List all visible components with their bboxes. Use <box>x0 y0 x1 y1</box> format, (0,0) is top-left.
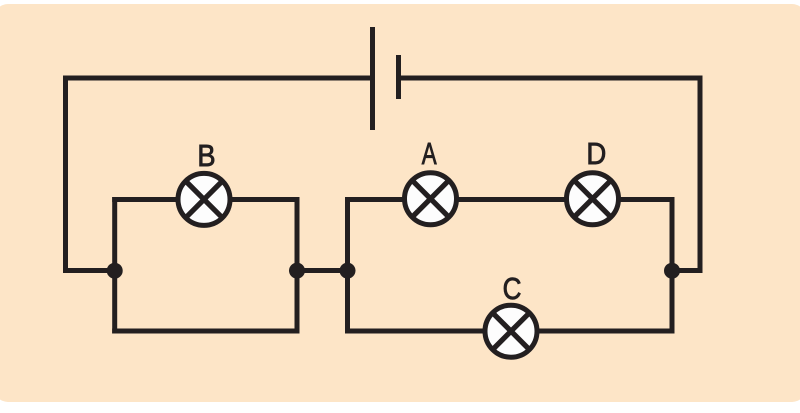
wire: right loop bottom branch (lamp C branch) <box>345 329 675 334</box>
svg-text:A: A <box>422 136 437 170</box>
battery long plate (positive) <box>370 27 375 130</box>
svg-text:C: C <box>503 272 522 307</box>
wire: middle connector node2-node3 <box>295 268 351 273</box>
wire: left outer vertical <box>63 76 68 274</box>
wire: top right horizontal (battery right lead) <box>398 76 703 81</box>
wire: left loop right vertical <box>295 197 300 334</box>
wire: left loop top branch (lamp B branch) <box>112 197 299 202</box>
wire: right loop left vertical <box>345 197 350 334</box>
battery short plate (negative) <box>396 55 401 99</box>
svg-text:D: D <box>586 137 606 172</box>
node 2 (junction dot) <box>289 263 305 279</box>
wire: left outer horizontal into node 1 <box>63 268 115 273</box>
node 4 (junction dot) <box>664 263 680 279</box>
wire: right loop top branch (lamps A,D branch) <box>345 197 675 202</box>
lamp B <box>178 173 230 225</box>
wire: left loop left vertical <box>112 197 117 334</box>
wire: right outer vertical <box>698 76 703 274</box>
node 1 (junction dot) <box>107 263 123 279</box>
lamp C <box>485 305 537 357</box>
node 3 (junction dot) <box>340 263 356 279</box>
svg-text:B: B <box>197 139 215 173</box>
lamp D <box>567 173 619 225</box>
lamp A <box>405 173 457 225</box>
wire: right outer horizontal from node 4 <box>670 268 703 273</box>
wire: left loop bottom branch <box>112 329 299 334</box>
wire: top left horizontal (battery left lead) <box>63 76 372 81</box>
wire: right loop right vertical <box>670 197 675 334</box>
